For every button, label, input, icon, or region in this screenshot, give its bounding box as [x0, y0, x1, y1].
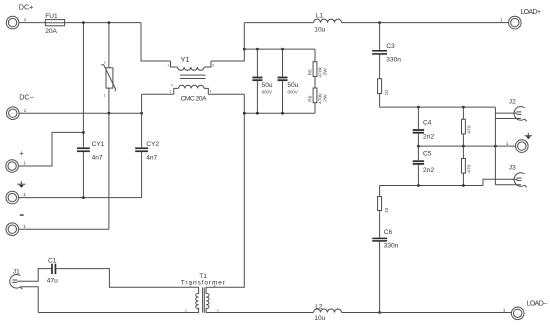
node junction DC- CY2 column [140, 112, 143, 115]
wire minus row [19, 228, 109, 230]
wire Y1 top output up to top rail [211, 23, 244, 61]
wire L2 to LOAD- [342, 312, 512, 314]
wire CY1 column top [82, 23, 84, 148]
connector chassis left [6, 191, 26, 204]
svg-text:2n2: 2n2 [423, 167, 434, 174]
wire bottom rail J1 to T1 pin2 [38, 312, 197, 314]
svg-text:C6: C6 [384, 229, 393, 236]
wire cap-bank bottom rail [244, 112, 315, 114]
svg-text:FU1: FU1 [45, 13, 58, 20]
resistor R2 10 [378, 186, 390, 214]
svg-text:CMC 20A: CMC 20A [181, 95, 207, 102]
svg-text:1: 1 [190, 284, 192, 288]
svg-text:CY1: CY1 [92, 141, 105, 148]
svg-text:J3: J3 [509, 164, 516, 171]
wire top rail to L1 [244, 22, 313, 24]
svg-text:LOAD−: LOAD− [527, 301, 548, 308]
node junction cap-bank top rail [243, 48, 246, 51]
wire rail A [380, 106, 496, 108]
svg-text:+: + [19, 149, 23, 158]
wire L1 to LOAD+ [342, 22, 509, 24]
svg-text:330n: 330n [386, 57, 401, 64]
svg-text:4: 4 [210, 89, 212, 93]
wire Y1 bottom output to long vertical [208, 93, 244, 95]
connector minus [6, 215, 26, 235]
wire ground row [19, 197, 142, 199]
resistor R6 470k 2W [307, 76, 328, 113]
node junction plus tap on CY1 column [82, 131, 85, 134]
node junction bottom rail C6 column [378, 311, 381, 314]
node junction rail B right vertical [494, 145, 497, 148]
capacitor CY2 4n7 [135, 141, 159, 161]
resistor R4 470 [462, 146, 473, 185]
svg-text:2n2: 2n2 [423, 134, 434, 141]
svg-text:L2: L2 [315, 303, 323, 310]
node junction rail A R3 [462, 106, 465, 109]
node junction rail B C5 [417, 145, 420, 148]
wire long vertical to transformer [207, 94, 244, 287]
svg-text:LOAD+: LOAD+ [520, 9, 541, 16]
svg-text:50u: 50u [287, 82, 298, 89]
capacitor C7 50u 800V [278, 49, 299, 113]
svg-text:20A: 20A [45, 28, 57, 35]
node junction top rail varistor column [108, 21, 111, 24]
svg-text:10: 10 [384, 90, 390, 96]
connector LOAD+ [500, 9, 541, 29]
capacitor C2 50u 800V [252, 49, 273, 113]
svg-text:DC+: DC+ [19, 3, 34, 12]
wire CY1 to ground row [82, 152, 84, 198]
wire DC+ to fuse [19, 22, 46, 24]
connector plus [6, 149, 26, 173]
capacitor CY1 4n7 [77, 141, 105, 161]
wire cap-bank top rail [244, 48, 315, 50]
svg-text:C3: C3 [386, 43, 395, 50]
node junction rail A C4 [417, 106, 420, 109]
wire CY2 to ground row [141, 152, 143, 198]
wire J3 lower pin stub [495, 184, 521, 186]
svg-text:L1: L1 [316, 13, 324, 20]
svg-text:R5: R5 [307, 69, 313, 75]
node junction C2 bottom [256, 112, 259, 115]
connector J2 [509, 99, 527, 122]
svg-text:330n: 330n [384, 243, 399, 250]
svg-text:4: 4 [214, 284, 216, 288]
wire J1 upper pin to C1 [17, 269, 51, 282]
connector DC+ [6, 3, 33, 29]
capacitor C4 2n2 [413, 107, 435, 146]
svg-text:C5: C5 [423, 151, 432, 158]
wire fuse to Y1 corner [65, 22, 141, 24]
node junction C7 bottom [281, 112, 284, 115]
svg-text:10u: 10u [314, 315, 325, 322]
wire CY2 column top [141, 94, 143, 147]
resistor R1 10 [378, 55, 390, 107]
node junction rail C C5 [417, 184, 420, 187]
svg-text:4n7: 4n7 [92, 155, 103, 162]
svg-text:2W: 2W [322, 68, 328, 76]
wire rail B ground row right [418, 145, 515, 147]
svg-text:470: 470 [466, 125, 472, 133]
connector DC- [7, 93, 34, 120]
wire DC- rail [19, 112, 142, 114]
transformer T1 [181, 273, 226, 313]
capacitor C5 2n2 [413, 146, 435, 185]
svg-text:1: 1 [500, 17, 503, 23]
svg-text:800V: 800V [287, 89, 298, 94]
connector J3 [509, 164, 527, 187]
capacitor C1 47u [47, 257, 58, 284]
node junction rail C R4 [462, 184, 465, 187]
svg-text:4: 4 [171, 83, 173, 87]
svg-text:2: 2 [104, 60, 106, 64]
svg-text:Transformer: Transformer [181, 279, 226, 286]
node junction rail B R4 [462, 145, 465, 148]
svg-text:3: 3 [212, 63, 214, 67]
svg-text:47u: 47u [47, 278, 58, 285]
svg-text:800V: 800V [262, 89, 273, 94]
svg-text:1: 1 [167, 63, 169, 67]
svg-text:C1: C1 [48, 257, 57, 264]
svg-text:1: 1 [23, 161, 26, 167]
node junction C2 top [256, 48, 259, 51]
ground earth symbol left [17, 181, 25, 188]
node junction DC- varistor column [108, 112, 111, 115]
node junction top rail C3 column [378, 21, 381, 24]
resistor R3 470 [462, 107, 473, 146]
wire rail C step up to J3 [483, 179, 517, 185]
svg-text:R6: R6 [307, 95, 313, 101]
svg-text:CY2: CY2 [146, 141, 159, 148]
svg-text:10u: 10u [314, 26, 325, 33]
connector chassis right [506, 140, 528, 153]
node junction CY1 ground row [82, 196, 85, 199]
varistor RV1 [101, 23, 115, 114]
wire C1 to transformer pin1 [56, 269, 197, 288]
svg-text:1: 1 [503, 308, 506, 314]
svg-text:2: 2 [170, 89, 172, 93]
svg-text:470: 470 [466, 164, 472, 172]
node junction C7 top [281, 48, 284, 51]
svg-text:50u: 50u [262, 82, 273, 89]
svg-text:C4: C4 [423, 120, 432, 127]
wire CY2 column to Y1 bottom input [142, 93, 174, 95]
wire rail C [380, 185, 483, 187]
svg-text:J2: J2 [509, 99, 516, 106]
svg-text:1: 1 [506, 141, 509, 147]
choke Y1 CMC 20A [167, 55, 214, 102]
svg-text:DC−: DC− [19, 93, 34, 102]
svg-text:1: 1 [23, 224, 26, 230]
wire J2 lower pin stub [495, 118, 521, 120]
inductor L1 10u [314, 13, 342, 34]
wire right vertical J2/J3 [494, 107, 496, 185]
wire varistor column down to minus row [108, 113, 110, 229]
wire plus terminal to CY1 column [19, 132, 84, 166]
connector J1 [10, 268, 23, 289]
resistor R5 470k 2W [307, 49, 328, 77]
inductor L2 10u [314, 303, 342, 321]
ground earth symbol right [525, 133, 532, 139]
capacitor C6 330n [372, 211, 398, 313]
svg-text:4n7: 4n7 [146, 155, 157, 162]
connector LOAD- [503, 301, 547, 320]
capacitor C3 330n [372, 23, 401, 64]
wire J1 lower pin to bottom rail [21, 287, 39, 313]
wire T1 pin3 to L2 [207, 312, 313, 314]
svg-text:10: 10 [384, 207, 390, 213]
node junction top rail CY1 column [82, 21, 85, 24]
svg-text:1: 1 [104, 93, 106, 97]
node junction cap rail long vertical [243, 112, 246, 115]
svg-text:2W: 2W [322, 94, 328, 102]
svg-text:Y1: Y1 [181, 55, 190, 64]
wire J2 upper pin stub [495, 112, 517, 114]
fuse FU1 20A [45, 13, 64, 35]
wire down to Y1 top input [141, 23, 171, 61]
